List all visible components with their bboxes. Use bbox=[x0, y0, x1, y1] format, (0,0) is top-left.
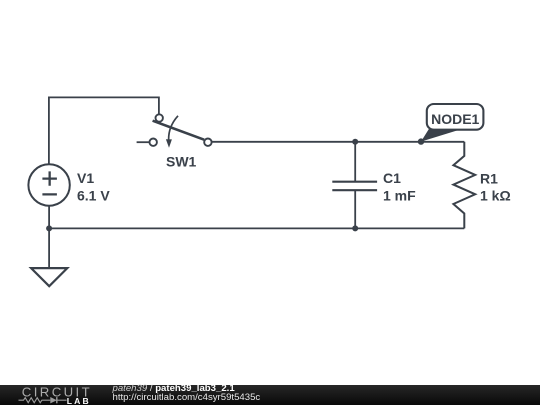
resistor R1 bbox=[453, 142, 475, 229]
switch SW1 bbox=[137, 114, 212, 148]
svg-text:R1: R1 bbox=[480, 170, 498, 186]
label R1 value 1 kOhm bbox=[480, 170, 511, 203]
ground bbox=[31, 268, 67, 286]
footer bar bbox=[0, 385, 540, 406]
node junction C1 top bbox=[352, 139, 358, 145]
svg-text:C1: C1 bbox=[383, 170, 401, 186]
node junction V1-bottom rail bbox=[46, 225, 52, 231]
CircuitLab logo bbox=[0, 385, 100, 406]
wire V1 bottom to ground rail bbox=[48, 206, 50, 268]
wire top rail from V1 to SW1 bbox=[49, 97, 159, 165]
svg-text:V1: V1 bbox=[77, 170, 94, 186]
credit text bbox=[113, 384, 261, 403]
svg-text:NODE1: NODE1 bbox=[431, 111, 479, 127]
capacitor C1 bbox=[332, 142, 377, 229]
svg-text:1 mF: 1 mF bbox=[383, 188, 416, 204]
label NODE1 bbox=[431, 111, 479, 127]
svg-text:SW1: SW1 bbox=[166, 154, 197, 170]
label V1 value 6.1 V bbox=[77, 170, 110, 204]
svg-text:6.1 V: 6.1 V bbox=[77, 188, 110, 204]
node NODE1 junction dot bbox=[418, 138, 424, 144]
voltage source V1 bbox=[28, 164, 69, 205]
label SW1 bbox=[166, 154, 197, 170]
label C1 value 1 mF bbox=[383, 170, 416, 204]
svg-text:1 kΩ: 1 kΩ bbox=[480, 188, 511, 204]
wire SW1 to R1 corner bbox=[212, 141, 465, 143]
node junction C1 bottom bbox=[352, 225, 358, 231]
wire bottom rail bbox=[49, 227, 464, 229]
node NODE1 callout bbox=[421, 104, 483, 142]
svg-text:LAB: LAB bbox=[67, 395, 91, 405]
